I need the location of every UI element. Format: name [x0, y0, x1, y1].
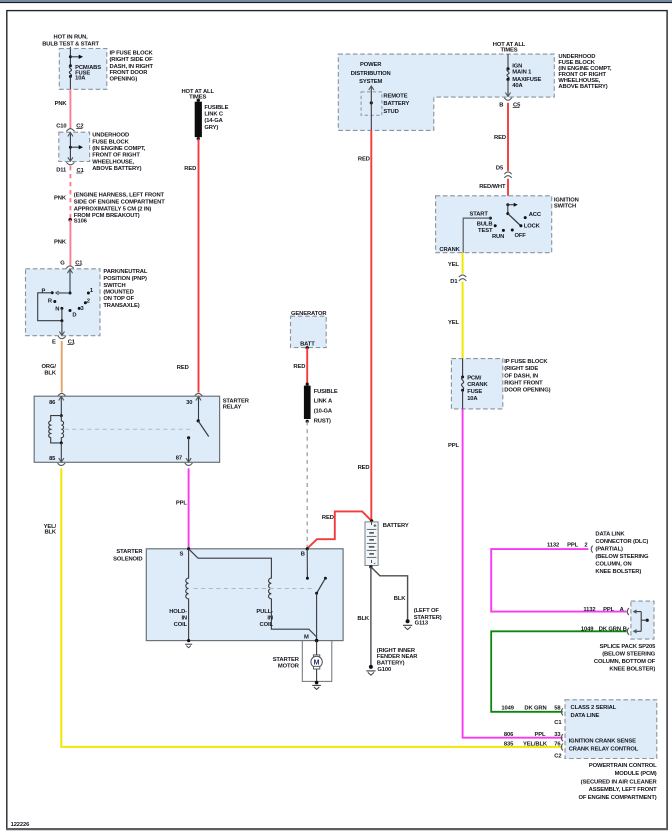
wire inside fuse block — [69, 49, 71, 66]
svg-text:FUSIBLE: FUSIBLE — [204, 105, 228, 111]
ignition switch pivot — [507, 205, 509, 214]
svg-text:SWITCH: SWITCH — [103, 283, 125, 289]
svg-text:85: 85 — [49, 456, 56, 462]
svg-text:PPL: PPL — [603, 607, 614, 613]
wire RED maxifuse to D5 — [507, 103, 509, 171]
svg-text:COLUMN, ON: COLUMN, ON — [595, 562, 631, 568]
wire stud to box edge — [370, 103, 372, 130]
relay pin 85 exit — [60, 443, 62, 462]
svg-text:WHEELHOUSE,: WHEELHOUSE, — [92, 159, 134, 165]
fusible link C — [197, 99, 200, 102]
svg-text:B: B — [499, 102, 503, 108]
svg-text:COLUMN, BOTTOM OF: COLUMN, BOTTOM OF — [594, 659, 656, 665]
junction dot — [69, 55, 72, 58]
connector C10/C2 arc — [66, 129, 74, 132]
svg-text:CONNECTOR (DLC): CONNECTOR (DLC) — [595, 539, 648, 545]
svg-text:UNDERHOOD: UNDERHOOD — [92, 133, 129, 139]
svg-text:HOT IN RUN,: HOT IN RUN, — [54, 35, 89, 41]
pin E connector C1 — [58, 336, 66, 339]
starter solenoid box — [146, 549, 343, 641]
svg-text:SIDE OF ENGINE COMPARTMENT: SIDE OF ENGINE COMPARTMENT — [74, 200, 165, 206]
svg-text:KNEE BOLSTER): KNEE BOLSTER) — [595, 569, 641, 575]
motor armature lead — [316, 641, 318, 655]
starter motor housing — [302, 641, 332, 682]
wire PNK — [69, 89, 71, 128]
svg-text:1049: 1049 — [581, 627, 594, 633]
wire PNK — [69, 220, 71, 266]
svg-text:BATTERY: BATTERY — [383, 523, 409, 529]
svg-text:D: D — [72, 312, 76, 318]
svg-text:YEL: YEL — [448, 320, 459, 326]
svg-text:OFF: OFF — [515, 233, 527, 239]
motor M — [311, 656, 322, 667]
svg-text:CRANK RELAY CONTROL: CRANK RELAY CONTROL — [569, 746, 639, 752]
wire RED fusible link C to relay 30 — [198, 139, 200, 393]
svg-text:122226: 122226 — [11, 822, 31, 828]
motor case ground — [315, 681, 319, 685]
svg-text:POSITION (PNP): POSITION (PNP) — [103, 276, 147, 282]
svg-text:M: M — [314, 659, 320, 666]
solenoid B contact — [306, 549, 308, 578]
svg-text:B: B — [301, 552, 305, 558]
remote battery stud — [370, 101, 373, 104]
fuse IGN MAIN 1 MAXIFUSE 40A — [507, 54, 509, 69]
svg-text:G: G — [60, 260, 65, 266]
connector arc relay pin 30 — [195, 393, 203, 396]
relay coil bottom junction — [60, 441, 63, 444]
svg-text:(RIGHT INNER: (RIGHT INNER — [377, 648, 416, 654]
svg-text:LINK A: LINK A — [314, 399, 333, 405]
in-line connector D5 — [504, 172, 511, 174]
motor brush top — [313, 655, 319, 658]
svg-text:BULB: BULB — [477, 221, 493, 227]
svg-text:DOOR OPENING): DOOR OPENING) — [504, 388, 550, 394]
svg-text:(MOUNTED: (MOUNTED — [103, 289, 133, 295]
svg-text:(BELOW STEERING: (BELOW STEERING — [595, 554, 649, 560]
PNP contact R — [53, 300, 56, 303]
svg-text:FUSIBLE: FUSIBLE — [314, 389, 338, 395]
svg-text:PPL: PPL — [448, 443, 459, 449]
svg-text:HOLD-: HOLD- — [169, 609, 187, 615]
wire RED solenoid B to battery — [307, 511, 371, 548]
svg-text:BATTERY: BATTERY — [383, 101, 409, 107]
wire P contact to output — [38, 293, 62, 321]
svg-text:STARTER: STARTER — [273, 657, 300, 663]
fusible link A — [306, 383, 309, 386]
svg-text:IGN: IGN — [512, 63, 522, 69]
connector arc splice pin A — [627, 608, 629, 615]
svg-text:33: 33 — [554, 732, 561, 738]
svg-text:FRONT DOOR: FRONT DOOR — [110, 70, 149, 76]
svg-text:D1: D1 — [450, 279, 458, 285]
svg-text:CRANK: CRANK — [467, 382, 488, 388]
hold-in coil branch — [186, 549, 189, 641]
svg-text:DK GRN: DK GRN — [524, 706, 546, 712]
svg-text:MOTOR: MOTOR — [278, 664, 300, 670]
svg-text:ASSEMBLY, LEFT FRONT: ASSEMBLY, LEFT FRONT — [589, 787, 657, 793]
svg-text:1132: 1132 — [583, 607, 595, 613]
svg-text:BLK: BLK — [44, 371, 56, 377]
svg-text:(SECURED IN AIR CLEANER: (SECURED IN AIR CLEANER — [581, 779, 658, 785]
svg-text:(14-GA: (14-GA — [204, 118, 223, 124]
svg-text:M: M — [304, 634, 309, 640]
pull-in coil branch — [189, 549, 317, 641]
wire PPL fuse to PCM pin 33 — [463, 409, 563, 738]
contact RUN — [502, 229, 505, 232]
wire YEL ignition to D1 — [462, 253, 464, 274]
underhood fuse block (pass-through) — [59, 132, 90, 161]
svg-text:START: START — [470, 212, 489, 218]
svg-text:YEL/BLK: YEL/BLK — [523, 741, 548, 747]
svg-text:BLK: BLK — [394, 596, 406, 602]
svg-text:IP FUSE BLOCK: IP FUSE BLOCK — [504, 359, 548, 365]
junction dot — [60, 319, 63, 322]
PNP contact 1 — [87, 292, 90, 295]
svg-text:(IN ENGINE COMPT,: (IN ENGINE COMPT, — [92, 146, 146, 152]
svg-text:BULB TEST & START: BULB TEST & START — [42, 41, 99, 47]
battery — [365, 522, 378, 566]
top blue title bar — [0, 0, 672, 2]
svg-text:SYSTEM: SYSTEM — [359, 79, 382, 85]
arrow feed branch — [70, 146, 79, 148]
motor case lead — [316, 669, 318, 682]
svg-text:ABOVE BATTERY): ABOVE BATTERY) — [92, 166, 141, 172]
svg-text:BATTERY): BATTERY) — [377, 660, 405, 666]
wire DK GRN splice pack to PCM pin 58 — [491, 631, 627, 712]
wire fuse to box edge — [69, 77, 71, 90]
ground G113 — [406, 619, 410, 623]
svg-text:(RIGHT SIDE: (RIGHT SIDE — [504, 366, 538, 372]
svg-text:FUSE BLOCK: FUSE BLOCK — [558, 60, 595, 66]
ground G100 — [369, 665, 373, 669]
power distribution / underhood fuse block (L-shaped) — [338, 54, 554, 130]
svg-text:RUN: RUN — [492, 234, 504, 240]
connector arc PCM pin 58 — [561, 708, 563, 715]
svg-text:CRANK: CRANK — [439, 247, 460, 253]
svg-text:FENDER NEAR: FENDER NEAR — [377, 654, 418, 660]
svg-text:D5: D5 — [496, 165, 504, 171]
svg-text:RED: RED — [358, 156, 370, 162]
svg-text:PPL: PPL — [535, 732, 546, 738]
svg-text:APPROXIMATELY 5 CM (2 IN): APPROXIMATELY 5 CM (2 IN) — [74, 206, 152, 212]
svg-text:RED: RED — [184, 166, 196, 172]
svg-text:(RIGHT SIDE OF: (RIGHT SIDE OF — [110, 57, 154, 63]
svg-text:C10: C10 — [56, 124, 66, 130]
svg-text:IN: IN — [267, 616, 273, 622]
svg-text:P: P — [41, 289, 45, 295]
svg-text:(10-GA: (10-GA — [314, 409, 333, 415]
svg-text:BLK: BLK — [44, 529, 56, 535]
pin B connector C5 — [504, 98, 512, 101]
svg-text:PNK: PNK — [54, 240, 67, 246]
splice pack SP205 box — [631, 601, 654, 639]
svg-text:RED: RED — [494, 135, 506, 141]
svg-text:POWERTRAIN CONTROL: POWERTRAIN CONTROL — [589, 763, 657, 769]
relay coil top junction — [60, 414, 63, 417]
wire START to CRANK output — [463, 218, 490, 253]
wire PPL DLC to splice pack — [491, 549, 627, 612]
svg-text:G113: G113 — [415, 620, 429, 626]
PNP switch box — [26, 269, 101, 336]
svg-text:IP FUSE BLOCK: IP FUSE BLOCK — [110, 50, 154, 56]
ignition feed junction — [506, 203, 509, 206]
svg-text:RIGHT FRONT: RIGHT FRONT — [504, 380, 543, 386]
svg-text:C1: C1 — [554, 720, 562, 726]
svg-text:76: 76 — [554, 741, 561, 747]
PNP contact 2 — [84, 301, 87, 304]
wire ORG/BLK — [61, 341, 63, 393]
wire PNK dashed (engine harness) — [69, 166, 71, 220]
solenoid switch arm — [324, 577, 327, 580]
PCM box — [565, 700, 657, 759]
svg-text:SWITCH: SWITCH — [554, 204, 576, 210]
connector arc PCM pin 33 — [561, 734, 563, 741]
svg-text:30: 30 — [186, 400, 192, 406]
svg-text:DISTRIBUTION: DISTRIBUTION — [351, 71, 391, 77]
svg-text:835: 835 — [504, 741, 514, 747]
svg-text:2: 2 — [584, 543, 587, 549]
svg-text:PPL: PPL — [567, 543, 578, 549]
svg-text:S: S — [180, 552, 184, 558]
PNP contact N — [60, 307, 63, 310]
PNP wiper junction — [69, 292, 72, 295]
splice S106 — [68, 218, 72, 222]
connector arc relay pin 86 — [58, 393, 66, 396]
remote battery stud box — [361, 92, 382, 115]
ignition switch box — [436, 196, 552, 253]
wire N contact drop — [61, 308, 63, 320]
wire PPL relay 87 to solenoid S — [188, 468, 190, 549]
connector arc relay pin 85 — [58, 463, 66, 466]
wire feed into IP fuse block — [69, 47, 71, 49]
ignition switch arm (at LOCK) — [508, 214, 520, 225]
svg-text:C2: C2 — [554, 754, 561, 760]
battery positive junction — [370, 519, 373, 522]
svg-text:RELAY: RELAY — [223, 405, 242, 411]
svg-text:KNEE BOLSTER): KNEE BOLSTER) — [609, 667, 655, 673]
svg-text:LINK C: LINK C — [204, 112, 224, 118]
svg-text:40A: 40A — [512, 83, 523, 89]
svg-text:IN: IN — [181, 616, 187, 622]
svg-text:TEST: TEST — [478, 228, 493, 234]
contact BULB TEST — [494, 224, 497, 227]
svg-text:ACC: ACC — [529, 212, 542, 218]
fuse PCM/ABS 10A — [69, 64, 72, 67]
svg-text:BLK: BLK — [357, 616, 369, 622]
contact LOCK — [519, 224, 522, 227]
svg-text:86: 86 — [49, 400, 56, 406]
wire YEL D1 to PCM/CRANK fuse — [462, 282, 464, 359]
svg-text:G100: G100 — [377, 667, 391, 673]
svg-text:STUD: STUD — [383, 109, 398, 115]
svg-text:PCM/: PCM/ — [467, 375, 482, 381]
svg-text:LOCK: LOCK — [524, 224, 541, 230]
relay pin 30 entry — [198, 396, 200, 421]
svg-text:SPLICE PACK SP205: SPLICE PACK SP205 — [600, 644, 656, 650]
svg-text:FRONT OF RIGHT: FRONT OF RIGHT — [92, 153, 140, 159]
svg-text:RUST): RUST) — [314, 419, 331, 425]
wire RED/WHT D5 to ignition switch — [507, 179, 509, 205]
contact OFF — [511, 229, 514, 232]
svg-text:ABOVE BATTERY): ABOVE BATTERY) — [558, 84, 607, 90]
PNP exit wire — [61, 321, 63, 336]
wire RED generator to fusible link A — [306, 348, 308, 384]
svg-text:D11: D11 — [56, 168, 67, 174]
wire BLK battery to G100 — [370, 567, 372, 666]
svg-text:RED: RED — [177, 365, 189, 371]
svg-text:10A: 10A — [75, 76, 86, 82]
battery negative junction — [369, 565, 372, 568]
svg-text:DK GRN: DK GRN — [599, 627, 621, 633]
relay pin 86 entry — [60, 396, 62, 415]
svg-text:N: N — [55, 307, 59, 313]
svg-text:S106: S106 — [74, 219, 88, 225]
solenoid mechanical link (dashed) — [194, 588, 313, 590]
connector D11/C1 arc — [66, 162, 74, 165]
svg-text:CLASS 2 SERIAL: CLASS 2 SERIAL — [571, 705, 617, 711]
connector arc splice pin B — [627, 628, 629, 635]
svg-text:DATA LINK: DATA LINK — [595, 532, 625, 538]
svg-text:FUSE: FUSE — [467, 389, 482, 395]
PNP contact P — [51, 291, 54, 294]
svg-text:RED/WHT: RED/WHT — [479, 184, 506, 190]
svg-text:COIL: COIL — [260, 622, 274, 628]
svg-text:PPL: PPL — [176, 501, 187, 507]
relay pin 87 exit — [188, 438, 190, 462]
svg-text:10A: 10A — [467, 396, 478, 402]
svg-text:STARTER: STARTER — [116, 549, 143, 555]
svg-text:2: 2 — [87, 298, 90, 304]
svg-text:TIMES: TIMES — [500, 48, 517, 54]
relay switch pivot — [197, 419, 200, 422]
svg-text:YEL: YEL — [448, 262, 459, 268]
wire (unfused, dashed) link A to solenoid B — [306, 421, 308, 548]
svg-text:-: - — [374, 560, 376, 566]
svg-text:(ENGINE HARNESS, LEFT FRONT: (ENGINE HARNESS, LEFT FRONT — [74, 193, 165, 199]
svg-text:OPENING): OPENING) — [110, 77, 138, 83]
fuse PCM/CRANK 10A — [462, 359, 464, 377]
IP fuse block (top left) — [59, 49, 107, 90]
svg-text:DATA LINE: DATA LINE — [571, 713, 600, 719]
relay coil resistor (parallel) — [49, 416, 62, 443]
contact ACC — [524, 216, 527, 219]
motor brush bottom — [313, 666, 319, 669]
svg-text:POWER: POWER — [360, 62, 382, 68]
svg-text:B: B — [623, 627, 627, 633]
svg-text:87: 87 — [176, 456, 182, 462]
svg-text:SOLENOID: SOLENOID — [113, 556, 142, 562]
svg-text:MAIN 1: MAIN 1 — [512, 70, 532, 76]
svg-text:(BELOW STEERING: (BELOW STEERING — [602, 652, 656, 658]
svg-text:ORG/: ORG/ — [42, 364, 57, 370]
svg-text:(PARTIAL): (PARTIAL) — [595, 547, 623, 553]
hold-in coil case ground — [187, 639, 190, 642]
svg-text:COIL: COIL — [174, 622, 188, 628]
svg-text:PNK: PNK — [54, 195, 67, 201]
svg-text:58: 58 — [554, 706, 561, 712]
svg-text:FUSE BLOCK: FUSE BLOCK — [92, 139, 129, 145]
wire YEL/BLK relay 85 to PCM — [61, 468, 562, 747]
svg-text:OF DASH, IN: OF DASH, IN — [504, 374, 538, 380]
svg-text:E: E — [52, 340, 56, 346]
svg-text:PARK/NEUTRAL: PARK/NEUTRAL — [103, 269, 147, 275]
svg-text:ON TOP OF: ON TOP OF — [103, 296, 134, 302]
wire BLK battery to G113 — [371, 567, 408, 620]
PNP contact D — [69, 309, 72, 312]
connector arc DLC pin 2 — [591, 546, 593, 553]
arrow feed branch — [70, 56, 79, 58]
contact START — [489, 217, 492, 220]
svg-text:GRY): GRY) — [204, 125, 218, 131]
svg-text:PNK: PNK — [55, 101, 68, 107]
wire through underhood block — [69, 132, 71, 161]
svg-text:MODULE (PCM): MODULE (PCM) — [615, 771, 657, 777]
PNP entry wire — [69, 269, 71, 293]
starter relay box — [34, 396, 219, 462]
svg-text:PULL-: PULL- — [256, 609, 273, 615]
splice pack internal bus — [646, 619, 649, 622]
svg-text:REMOTE: REMOTE — [383, 94, 407, 100]
PNP contact 3 — [78, 307, 81, 310]
svg-text:TRANSAXLE): TRANSAXLE) — [103, 303, 139, 309]
connector arc relay pin 87 — [185, 463, 193, 466]
svg-text:DASH, IN RIGHT: DASH, IN RIGHT — [110, 64, 154, 70]
svg-text:OF ENGINE COMPARTMENT): OF ENGINE COMPARTMENT) — [579, 795, 657, 801]
IP fuse block (PCM/CRANK fuse) — [451, 359, 502, 409]
svg-text:(LEFT OF: (LEFT OF — [414, 608, 440, 614]
svg-text:STARTER): STARTER) — [414, 615, 442, 621]
svg-text:RED: RED — [322, 515, 334, 521]
svg-text:1049: 1049 — [501, 706, 514, 712]
svg-text:RED: RED — [293, 364, 305, 370]
in-line connector D1 — [459, 275, 466, 277]
junction dot — [69, 146, 72, 149]
relay switch contact — [187, 436, 190, 439]
connector arc PCM pin 76 — [561, 744, 563, 751]
svg-text:IGNITION CRANK SENSE: IGNITION CRANK SENSE — [569, 738, 636, 744]
relay switch arm — [198, 421, 209, 437]
svg-text:RED: RED — [358, 465, 370, 471]
relay coil winding — [61, 416, 63, 443]
relay mechanical link (dashed) — [65, 428, 195, 430]
wire RED stud to battery — [370, 130, 372, 521]
svg-text:1132: 1132 — [547, 543, 559, 549]
svg-text:806: 806 — [504, 732, 514, 738]
